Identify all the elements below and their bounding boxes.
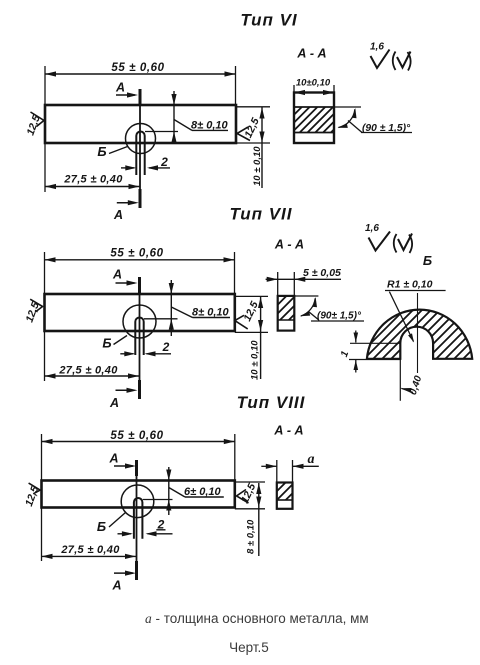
svg-text:(90± 1,5)°: (90± 1,5)° [317,310,362,321]
dimension 1 (Б detail) [339,331,401,373]
detail circle Б (VIII) [121,485,154,518]
left extension line (VIII) [41,434,43,561]
dimension 2 (VII) [120,340,171,356]
svg-text:А: А [109,396,119,410]
right roughness 12,5 (VI) [237,116,262,140]
notch slot (VIII) [134,498,143,539]
section arrow A bottom (VII) [109,388,138,410]
dimension 2 (VIII) [118,517,173,536]
specimen bar (VI) [45,105,236,143]
label Б (VI) [97,144,127,159]
section cutting line (VI) [139,89,142,208]
svg-text:А - А: А - А [296,47,326,61]
notch slot (VII) [135,318,143,355]
svg-text:Б: Б [97,144,106,159]
dimension 0,40 (Б detail) [401,374,424,396]
svg-text:27,5 ± 0,40: 27,5 ± 0,40 [58,365,118,377]
angle dimension (90±1,5)° (VI) [334,107,412,134]
section cutting line (VIII) [135,460,138,580]
svg-text:5 ± 0,05: 5 ± 0,05 [303,267,341,279]
svg-text:10 ± 0,10: 10 ± 0,10 [252,146,263,186]
svg-text:27,5 ± 0,40: 27,5 ± 0,40 [60,544,120,556]
title Тип VI [240,11,298,30]
right thickness text (VI) [252,146,263,186]
dimension depth (VIII) [143,467,224,515]
detail title Б [423,253,432,268]
left roughness 12,5 (VI) [25,112,44,137]
dimension 10±0,10 (VI section) [296,77,331,88]
section title A-A (VI) [296,47,326,61]
svg-text:a: a [308,452,315,467]
svg-text:Тип VI: Тип VI [240,11,298,30]
caption line [145,611,369,626]
svg-text:Б: Б [97,519,106,534]
svg-text:2: 2 [162,340,170,354]
svg-text:10 ± 0,10: 10 ± 0,10 [250,340,261,380]
svg-text:Б: Б [102,336,111,351]
section title A-A (VII) [274,238,304,252]
detail Б weld dome [360,300,478,360]
svg-text:Тип VII: Тип VII [229,205,292,224]
right thickness text (VII) [250,340,261,380]
label Б (VII) [102,336,127,351]
svg-text:Черт.5: Черт.5 [229,640,269,655]
svg-text:10±0,10: 10±0,10 [296,77,331,88]
svg-text:А - А: А - А [273,424,303,438]
svg-text:А: А [112,268,122,282]
svg-text:8± 0,10: 8± 0,10 [191,120,229,132]
svg-text:8 ± 0,10: 8 ± 0,10 [246,519,257,554]
section arrow A bottom (VIII) [111,571,136,593]
left extension line (VII) [44,252,46,381]
slot edge extension (Б detail) [399,359,401,401]
svg-text:А: А [113,208,123,222]
angle dimension (90±1,5)° (VII) [294,296,364,321]
section arrow A top (VIII) [108,452,136,469]
surface finish symbol 1,6 (VI) [370,42,411,71]
right roughness 12,5 (VII) [235,300,261,329]
svg-text:27,5 ± 0,40: 27,5 ± 0,40 [63,174,123,186]
dimension 5±0,05 (VII section) [303,267,341,279]
svg-text:(90 ± 1,5)°: (90 ± 1,5)° [362,123,411,134]
specimen bar (VIII) [42,481,235,508]
svg-text:8± 0,10: 8± 0,10 [192,307,230,319]
section title A-A (VIII) [273,424,303,438]
right thickness dimension lines (VI) [236,107,270,188]
dimension 55±0,60 (VI) [45,62,236,77]
section arrow A bottom (VI) [113,200,139,222]
radius dimension R1±0,10 (Б detail) [385,279,446,343]
detail circle Б (VI) [126,124,156,154]
svg-text:2: 2 [160,155,168,169]
dimension a (VIII section) [308,452,315,467]
svg-text:Б: Б [423,253,432,268]
svg-text:1,6: 1,6 [365,223,379,234]
right extension line (VIII) [234,434,236,481]
svg-text:R1 ± 0,10: R1 ± 0,10 [387,279,433,291]
right thickness dimension lines (VII) [235,296,268,379]
centreline (Б detail) [417,293,419,373]
dimension 55±0,60 (VII) [45,248,235,263]
dimension 27,5±0,40 (VIII) [42,544,137,559]
section arrow A top (VI) [115,81,138,98]
section arrow A top (VII) [112,268,138,286]
svg-text:2: 2 [157,517,165,531]
svg-text:6± 0,10: 6± 0,10 [184,486,222,498]
section view A-A rect (VIII) [261,460,319,509]
svg-text:55 ± 0,60: 55 ± 0,60 [110,430,163,442]
dimension 55±0,60 (VIII) [42,430,235,444]
svg-text:А: А [115,81,125,95]
right thickness text (VIII) [246,519,257,554]
detail circle Б (VII) [123,305,156,338]
notch slot (VI) [136,132,144,175]
right thickness dimension lines (VIII) [235,482,265,556]
figure number Черт.5 [229,640,269,655]
dimension depth (VII) [144,280,230,336]
title Тип VIII [237,393,306,412]
svg-text:Тип VIII: Тип VIII [237,393,306,412]
surface finish symbol 1,6 (VII) [365,223,412,253]
label Б (VIII) [97,513,126,535]
dimension 27,5±0,40 (VII) [45,365,140,379]
left extension line (VI) [44,66,46,192]
title Тип VII [229,205,292,224]
svg-text:А: А [111,579,121,593]
svg-text:1,6: 1,6 [370,42,384,53]
svg-text:55 ± 0,60: 55 ± 0,60 [111,62,164,74]
svg-text:А: А [108,452,118,466]
specimen bar (VII) [45,294,235,331]
svg-text:а - толщина основного металла: а - толщина основного металла, мм [145,611,369,626]
section cutting line (VII) [138,277,141,399]
left roughness 12,5 (VII) [24,299,43,324]
section view A-A rect (VI) [294,85,334,143]
right extension line (VI) [235,66,237,105]
dimension 2 (VI) [121,155,170,171]
svg-text:А - А: А - А [274,238,304,252]
left roughness 12,5 (VIII) [23,483,41,508]
right extension line (VII) [234,252,236,294]
svg-text:55 ± 0,60: 55 ± 0,60 [110,248,163,260]
right roughness 12,5 (VIII) [237,482,259,506]
dimension 27,5±0,40 (VI) [45,174,140,190]
section view A-A rect (VII) [266,272,341,331]
dimension depth (VI) [145,91,229,143]
